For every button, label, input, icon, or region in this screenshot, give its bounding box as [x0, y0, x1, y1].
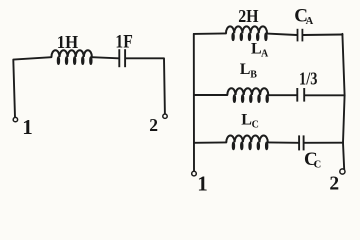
wire right-circuit top branch inductor-to-capacitor — [267, 34, 297, 35]
terminal 1 (right circuit) — [192, 171, 197, 176]
capacitor C_A plates — [298, 29, 303, 42]
terminal 2 (right circuit) — [340, 169, 345, 174]
svg-text:C: C — [314, 160, 322, 171]
svg-text:1: 1 — [197, 172, 208, 196]
wire right-circuit middle branch left segment — [194, 94, 227, 96]
wire right-circuit top branch capacitor-to-right — [303, 34, 342, 37]
wire right-circuit middle branch inductor-to-capacitor — [268, 94, 296, 96]
wire right-circuit middle branch capacitor-to-right — [305, 94, 344, 96]
svg-text:C: C — [252, 120, 259, 131]
svg-text:2: 2 — [149, 115, 158, 135]
capacitor C_C plates — [299, 135, 304, 150]
wire right-circuit bottom branch left segment — [194, 141, 226, 143]
wire right-circuit bottom branch capacitor-to-right — [305, 142, 344, 144]
svg-text:L: L — [241, 112, 252, 129]
wire right-circuit left vertical — [193, 34, 195, 171]
wire left-circuit capacitor-to-right and right vertical — [126, 58, 165, 114]
inductor L_A 2H (right circuit top) — [226, 26, 267, 40]
svg-text:1: 1 — [22, 115, 33, 139]
svg-text:2H: 2H — [238, 6, 258, 26]
svg-text:B: B — [250, 69, 257, 80]
svg-text:1/3: 1/3 — [299, 69, 318, 89]
svg-text:L: L — [240, 61, 251, 78]
inductor 1H (left circuit) — [51, 50, 92, 64]
inductor L_C (right circuit bottom) — [226, 136, 268, 150]
svg-text:2: 2 — [329, 173, 339, 194]
svg-text:A: A — [261, 48, 269, 59]
svg-text:A: A — [306, 16, 314, 27]
wire right-circuit top branch left segment — [194, 32, 226, 35]
capacitor 1F (left circuit) plates — [119, 49, 125, 67]
terminal 1 (left circuit) — [13, 117, 17, 121]
capacitor 1/3 plates — [297, 88, 304, 102]
wire left-circuit left vertical and top-left segment — [13, 57, 51, 117]
svg-text:1H: 1H — [57, 32, 78, 52]
svg-text:1F: 1F — [115, 33, 132, 53]
wire left-circuit inductor-to-capacitor — [92, 57, 119, 58]
inductor L_B (right circuit middle) — [227, 88, 268, 102]
wire right-circuit right vertical — [342, 34, 344, 170]
wire right-circuit bottom branch inductor-to-capacitor — [268, 141, 298, 143]
terminal 2 (left circuit) — [163, 114, 167, 118]
